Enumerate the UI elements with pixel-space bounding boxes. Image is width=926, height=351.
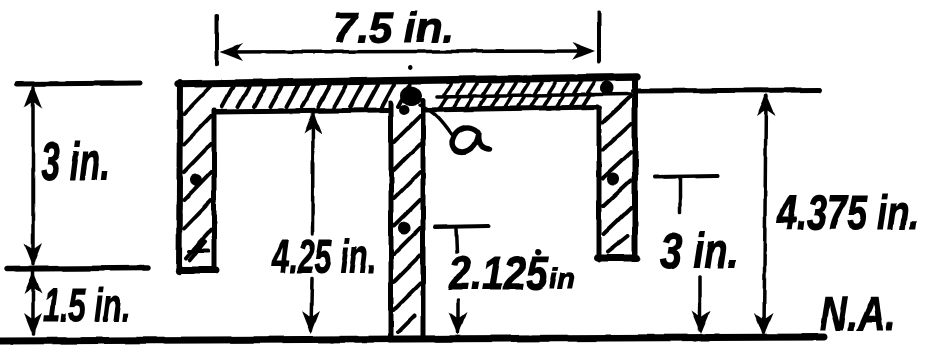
top flange hatching left half <box>222 85 410 107</box>
svg-text:4.375 in.: 4.375 in. <box>776 187 919 240</box>
center web hatching <box>394 116 420 332</box>
dimension 4.375 in: bottom arrowhead <box>755 313 774 336</box>
handwritten letter a <box>452 127 489 151</box>
left upper extension line <box>17 83 140 84</box>
left leg outline <box>179 82 216 272</box>
svg-text:in: in <box>549 263 575 294</box>
dimension 3 in left: bottom arrowhead <box>24 243 42 266</box>
dimension 3 in left: top arrowhead <box>24 85 42 108</box>
dimension 3 in right: tick stem <box>678 179 682 212</box>
dimension 7.5 in: right extension tick <box>597 13 601 62</box>
leader line for label a <box>420 105 452 135</box>
dimension 7.5 in: right arrowhead <box>572 42 595 60</box>
dimension 2.125 in: tick bar <box>435 226 489 227</box>
dimension 3 in right: lower line <box>698 277 702 330</box>
left middle extension line <box>7 268 148 269</box>
dimension 2.125 in: lower line <box>456 300 460 332</box>
dimension 3 in right: bottom arrowhead <box>692 311 711 334</box>
svg-text:N.A.: N.A. <box>820 288 896 341</box>
dimension 4.25 in: line <box>311 114 315 234</box>
left leg hatching <box>184 86 211 260</box>
dimension 1.5 in left: line <box>31 272 35 334</box>
dimension 4.375 in: top arrowhead <box>757 93 776 116</box>
svg-text:1.5 in.: 1.5 in. <box>43 279 130 331</box>
svg-text:3 in.: 3 in. <box>660 223 739 279</box>
dimension 7.5 in: dimension line <box>225 51 590 52</box>
dimension 1.5 in left: bottom arrowhead <box>24 313 42 336</box>
neutral axis bottom line <box>0 337 824 341</box>
right leg hatching <box>603 96 631 252</box>
top flange hatching right half (two rows of fine ticks) <box>437 82 630 108</box>
dimension 7.5 in: left arrowhead <box>220 43 243 61</box>
dimension 1.5 in left: top arrowhead <box>24 271 42 294</box>
dimension 2.125 in: bottom arrowhead <box>449 312 467 335</box>
svg-text:3 in.: 3 in. <box>41 132 110 192</box>
svg-text:7.5 in.: 7.5 in. <box>333 4 454 51</box>
dimension 3 in left: line <box>31 88 35 264</box>
center web outline <box>391 100 423 337</box>
ink blob at web-flange junction <box>190 65 619 256</box>
right leg outline <box>597 81 637 260</box>
dimension 4.375 in: line <box>764 96 766 332</box>
top flange outline <box>178 77 637 112</box>
dimension 4.25 in: bottom arrowhead <box>302 311 320 334</box>
dimension 4.25 in: top arrowhead <box>304 111 322 134</box>
svg-text:4.25 in.: 4.25 in. <box>271 231 376 284</box>
svg-text:2.125: 2.125 <box>448 247 549 299</box>
dimension 3 in right: tick bar <box>655 176 717 177</box>
right top extension line <box>633 90 820 91</box>
dimension 7.5 in: left extension tick <box>215 16 219 64</box>
dimension 2.125 in: tick stem <box>456 229 457 252</box>
